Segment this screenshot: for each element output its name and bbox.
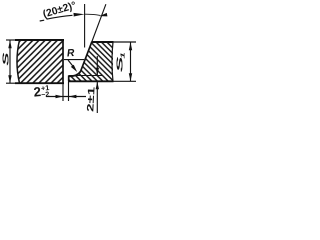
svg-text:1: 1 [120, 52, 126, 59]
svg-text:2±1: 2±1 [85, 87, 97, 113]
svg-text:−2: −2 [41, 89, 50, 99]
svg-text:R: R [67, 48, 76, 60]
svg-text:(20±2)°: (20±2)° [42, 0, 78, 20]
svg-text:S: S [1, 52, 11, 66]
